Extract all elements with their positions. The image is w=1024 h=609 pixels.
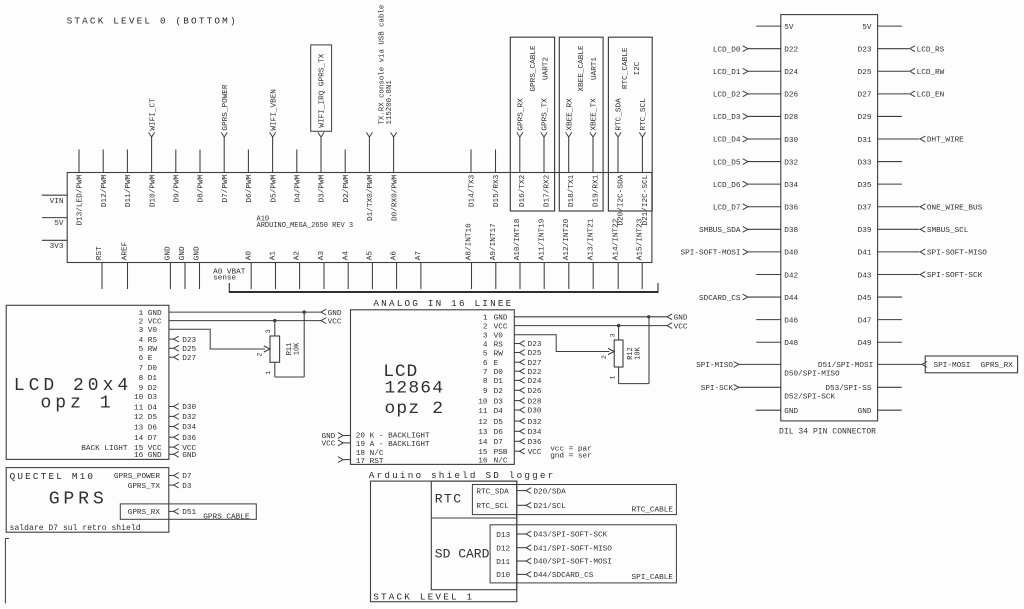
svg-text:D46: D46 xyxy=(784,317,798,325)
svg-text:3V3: 3V3 xyxy=(50,243,64,251)
svg-text:XBEE_CABLE: XBEE_CABLE xyxy=(578,45,586,92)
cable box GPRS_CABLE with pin GPRS_RX to D51 xyxy=(120,504,256,522)
svg-text:8: 8 xyxy=(139,375,144,383)
svg-text:D3/PWM: D3/PWM xyxy=(319,174,327,202)
DIL pin D38 (left) xyxy=(699,226,799,235)
svg-text:RTC_SDA: RTC_SDA xyxy=(476,488,509,496)
LCD20x4 pin 15 VCC xyxy=(134,444,197,453)
title STACK LEVEL 1 xyxy=(373,591,474,602)
svg-text:D52/SPI-SCK: D52/SPI-SCK xyxy=(784,393,835,401)
svg-text:D6/PWM: D6/PWM xyxy=(246,174,254,202)
pin A3 (bottom) xyxy=(318,251,326,289)
note TX RX console via USB cable xyxy=(378,5,394,125)
svg-text:D34: D34 xyxy=(784,182,798,190)
svg-text:D50/SPI-MISO: D50/SPI-MISO xyxy=(784,370,840,378)
svg-text:E: E xyxy=(494,360,499,368)
svg-text:LCD_D1: LCD_D1 xyxy=(713,69,741,77)
svg-text:15: 15 xyxy=(478,449,488,457)
DIL pin D50/SPI-MISO with net SPI-MISO xyxy=(696,362,840,379)
DIL pin D35 (right) xyxy=(858,182,902,190)
svg-text:D20/I2C-SDA: D20/I2C-SDA xyxy=(617,174,625,225)
svg-text:SPI-MISO: SPI-MISO xyxy=(696,362,733,370)
DIL pin D47 (right) xyxy=(858,317,902,325)
svg-text:WIFI_VBEN: WIFI_VBEN xyxy=(270,89,278,131)
DIL pin 5V (left) xyxy=(756,24,794,32)
svg-text:D18/TX1: D18/TX1 xyxy=(568,174,576,207)
pin GND (bottom) xyxy=(165,246,173,289)
svg-text:D15/RX3: D15/RX3 xyxy=(493,174,501,207)
LCD12864 pin 3 V0 xyxy=(483,333,503,341)
svg-text:D20/SDA: D20/SDA xyxy=(533,488,566,496)
svg-text:D45: D45 xyxy=(858,295,872,303)
label 12864 xyxy=(385,378,445,398)
pin D21/I2C-SCL xyxy=(639,98,650,226)
DIL pin D26 (left) xyxy=(713,91,799,100)
svg-text:A6: A6 xyxy=(391,251,399,261)
svg-text:D3: D3 xyxy=(148,394,158,402)
svg-text:7: 7 xyxy=(139,365,144,373)
svg-text:4: 4 xyxy=(139,337,144,345)
svg-text:UART1: UART1 xyxy=(591,57,599,80)
svg-text:AREF: AREF xyxy=(122,241,130,260)
svg-text:opz 2: opz 2 xyxy=(385,399,445,419)
svg-text:GND: GND xyxy=(165,246,173,260)
cable group box GPRS_CABLE UART2 xyxy=(510,37,554,211)
svg-text:RS: RS xyxy=(148,337,158,345)
svg-text:D32: D32 xyxy=(182,414,196,422)
wire V0 to R12 wiper xyxy=(514,335,614,355)
svg-text:STACK LEVEL 1: STACK LEVEL 1 xyxy=(373,591,474,602)
svg-text:A14/INT22: A14/INT22 xyxy=(612,218,620,260)
module box RTC / SD CARD xyxy=(431,481,517,590)
svg-text:D51: D51 xyxy=(182,509,196,517)
svg-text:1: 1 xyxy=(139,310,144,318)
DIL pins GND xyxy=(756,408,902,416)
svg-text:10: 10 xyxy=(134,394,144,402)
LCD12864 pin 13 D6 xyxy=(478,428,542,437)
svg-text:D41: D41 xyxy=(858,250,872,258)
pin A1 (bottom) xyxy=(270,251,278,289)
svg-text:D33: D33 xyxy=(858,159,872,167)
svg-text:RTC: RTC xyxy=(435,492,463,507)
svg-text:A1: A1 xyxy=(270,251,278,261)
svg-text:D31: D31 xyxy=(858,137,872,145)
analog bus bracket xyxy=(229,283,659,292)
pin D7/PWM xyxy=(221,84,230,202)
svg-text:D22: D22 xyxy=(784,46,798,54)
svg-text:A11/INT19: A11/INT19 xyxy=(538,218,546,260)
svg-text:D16/TX2: D16/TX2 xyxy=(519,174,527,207)
LCD20x4 pin 7 D0 xyxy=(139,365,158,373)
svg-text:A7: A7 xyxy=(415,251,423,261)
GPRS pin GPRS_TX to D3 xyxy=(128,482,192,491)
svg-text:LCD_D7: LCD_D7 xyxy=(713,204,741,212)
svg-text:V0: V0 xyxy=(148,327,158,335)
DIL pin D46 (left) xyxy=(756,317,798,325)
svg-text:D40/SPI-SOFT-MOSI: D40/SPI-SOFT-MOSI xyxy=(533,559,611,567)
svg-text:1: 1 xyxy=(265,371,272,375)
pin GND (bottom) xyxy=(179,246,187,289)
svg-text:RS: RS xyxy=(494,341,504,349)
svg-text:11: 11 xyxy=(134,404,144,412)
module LCD 12864 opz 2 body xyxy=(351,310,515,465)
svg-text:GPRS_RX: GPRS_RX xyxy=(518,98,526,131)
svg-text:GND: GND xyxy=(194,246,202,260)
svg-text:20 K - BACKLIGHT: 20 K - BACKLIGHT xyxy=(356,432,430,440)
svg-text:7: 7 xyxy=(483,369,488,377)
svg-text:N/C: N/C xyxy=(494,458,508,466)
svg-text:LCD_EN: LCD_EN xyxy=(917,92,945,100)
svg-text:3: 3 xyxy=(139,327,144,335)
DIL pin D48 (left) xyxy=(756,340,798,348)
svg-text:GPRS_RX: GPRS_RX xyxy=(128,509,161,517)
LCD20x4 pin 3 V0 xyxy=(139,327,158,335)
net GND wire (LCD12864 pin1) xyxy=(514,314,688,323)
net box SPI-MOSI GPRS_RX xyxy=(925,356,1017,373)
LCD12864 pin 17 RST xyxy=(338,457,384,466)
svg-text:WIFI_IRQ GPRS_TX: WIFI_IRQ GPRS_TX xyxy=(319,53,327,127)
label LCD 20x4 xyxy=(14,376,132,396)
svg-text:115200.8N1: 115200.8N1 xyxy=(386,80,394,125)
svg-text:16: 16 xyxy=(134,452,144,460)
DIL pin D45 (right) xyxy=(858,295,902,303)
svg-text:D44: D44 xyxy=(784,295,798,303)
svg-text:D29: D29 xyxy=(858,114,872,122)
svg-text:10K: 10K xyxy=(293,342,301,355)
svg-text:SMBUS_SDA: SMBUS_SDA xyxy=(699,227,741,235)
pin D4/PWM xyxy=(295,150,303,203)
LCD12864 pin 9 D2 xyxy=(483,387,542,396)
svg-text:ARDUINO_MEGA_2650 REV 3: ARDUINO_MEGA_2650 REV 3 xyxy=(257,222,354,230)
pin A12/INT20 (bottom) xyxy=(563,218,571,289)
title ANALOG IN 16 LINEE xyxy=(373,298,513,309)
svg-text:D1: D1 xyxy=(148,375,158,383)
svg-text:RTC_CABLE: RTC_CABLE xyxy=(622,47,630,89)
pin A15/INT23 (bottom) xyxy=(636,218,644,289)
DIL pin D43 (right) xyxy=(858,272,983,281)
svg-text:A5: A5 xyxy=(367,251,375,261)
svg-text:5: 5 xyxy=(139,346,144,354)
LCD20x4 pin 6 E xyxy=(139,354,197,363)
DIL pin D36 (left) xyxy=(713,204,799,213)
svg-text:D5/PWM: D5/PWM xyxy=(270,174,278,202)
LCD20x4 pin 2 VCC xyxy=(139,318,162,326)
svg-text:2: 2 xyxy=(483,323,488,331)
label BACK LIGHT xyxy=(81,445,128,453)
svg-text:D2/PWM: D2/PWM xyxy=(343,174,351,202)
svg-text:D3: D3 xyxy=(182,483,192,491)
svg-text:5V: 5V xyxy=(54,220,64,228)
net GND wire (LCD20x4 pin1) xyxy=(169,309,342,318)
LCD12864 pin 2 VCC xyxy=(483,323,508,331)
svg-text:D4: D4 xyxy=(494,408,504,416)
svg-text:D1: D1 xyxy=(494,378,504,386)
pin A9/INT17 (bottom) xyxy=(490,223,498,289)
pin D6/PWM xyxy=(246,150,254,203)
DIL pin D22 (left) xyxy=(713,46,799,55)
svg-text:GPRS_CABLE: GPRS_CABLE xyxy=(203,514,250,522)
RTC pin RTC_SCL to D21/SCL xyxy=(476,502,566,511)
svg-text:3: 3 xyxy=(483,333,488,341)
svg-text:3: 3 xyxy=(265,329,272,333)
note A0 VBAT sense xyxy=(213,268,246,282)
svg-text:17 RST: 17 RST xyxy=(356,458,384,466)
pin A4 (bottom) xyxy=(342,251,350,289)
DIL pin D51/SPI-MOSI wire to GPRS_RX xyxy=(818,362,927,371)
SD pin D11 to D40/SPI-SOFT-MOSI xyxy=(496,558,612,567)
LCD20x4 pin 16 GND xyxy=(134,451,197,460)
svg-text:RW: RW xyxy=(494,350,504,358)
svg-text:D36: D36 xyxy=(784,205,798,213)
svg-text:VCC: VCC xyxy=(148,318,162,326)
svg-text:A8/INT16: A8/INT16 xyxy=(466,223,474,260)
svg-text:LCD_D4: LCD_D4 xyxy=(713,137,741,145)
svg-text:A12/INT20: A12/INT20 xyxy=(563,218,571,260)
LCD12864 pin 1 GND xyxy=(483,315,508,323)
svg-text:D11: D11 xyxy=(496,559,510,567)
pin A6 (bottom) xyxy=(391,251,399,289)
svg-text:D4/PWM: D4/PWM xyxy=(295,174,303,202)
svg-text:D12/PWM: D12/PWM xyxy=(101,174,109,207)
svg-text:D6: D6 xyxy=(148,424,158,432)
svg-text:gnd = ser: gnd = ser xyxy=(550,452,592,460)
svg-text:GPRS: GPRS xyxy=(49,490,108,510)
svg-text:RST: RST xyxy=(96,246,104,260)
svg-text:D40: D40 xyxy=(784,250,798,258)
label SD CARD xyxy=(435,546,490,561)
svg-text:D30: D30 xyxy=(182,404,196,412)
svg-text:D28: D28 xyxy=(528,398,542,406)
svg-text:VCC: VCC xyxy=(494,323,508,331)
label RTC xyxy=(435,492,463,507)
DIL pin D32 (left) xyxy=(713,159,799,168)
DIL pin D40 (left) xyxy=(681,249,799,258)
svg-text:VCC: VCC xyxy=(528,449,542,457)
svg-text:D22: D22 xyxy=(528,369,542,377)
svg-text:D24: D24 xyxy=(528,378,542,386)
svg-text:D25: D25 xyxy=(528,350,542,358)
svg-text:5V: 5V xyxy=(862,24,872,32)
DIL pin D53/SPI-SS xyxy=(825,385,901,393)
svg-text:LCD_D5: LCD_D5 xyxy=(713,159,741,167)
svg-text:RTC_SCL: RTC_SCL xyxy=(476,503,509,511)
svg-text:D17/RX2: D17/RX2 xyxy=(543,174,551,207)
svg-text:D0: D0 xyxy=(494,369,504,377)
svg-text:SPI_CABLE: SPI_CABLE xyxy=(631,574,673,582)
pin RST (bottom) xyxy=(96,246,104,289)
svg-text:A10/INT18: A10/INT18 xyxy=(514,218,522,260)
svg-text:12: 12 xyxy=(134,414,144,422)
svg-text:D12: D12 xyxy=(496,546,510,554)
svg-text:16: 16 xyxy=(478,458,488,466)
RTC pin RTC_SDA to D20/SDA xyxy=(476,488,566,497)
wire V0 to R11 wiper xyxy=(169,329,270,352)
label GPRS xyxy=(49,490,108,510)
LCD20x4 pin 10 D3 xyxy=(134,394,157,402)
svg-text:PSB: PSB xyxy=(494,449,508,457)
DIL pin D37 (right) xyxy=(858,204,983,213)
svg-text:GND: GND xyxy=(858,408,872,416)
svg-text:LCD_D2: LCD_D2 xyxy=(713,92,741,100)
pin D12/PWM xyxy=(101,150,109,208)
pin D11/PWM xyxy=(125,150,133,208)
svg-text:SPI-MOSI: SPI-MOSI xyxy=(934,362,971,370)
svg-text:A2: A2 xyxy=(294,251,302,261)
svg-text:VCC: VCC xyxy=(674,323,688,331)
svg-text:D4: D4 xyxy=(148,404,158,412)
pin D13/LED/PWM xyxy=(77,150,85,226)
svg-text:D34: D34 xyxy=(528,429,542,437)
label A10 ARDUINO_MEGA_2650 REV 3 xyxy=(257,216,354,231)
DIL pin D49 (right) xyxy=(858,340,902,348)
svg-text:3: 3 xyxy=(609,333,616,337)
DIL pin D39 (right) xyxy=(858,226,969,235)
svg-text:XBEE_TX: XBEE_TX xyxy=(591,98,599,131)
LCD20x4 pin 5 RW xyxy=(139,345,197,354)
svg-text:2: 2 xyxy=(139,318,144,326)
pin D5/PWM xyxy=(270,89,279,202)
svg-text:8: 8 xyxy=(483,378,488,386)
svg-text:DHT_WIRE: DHT_WIRE xyxy=(927,137,964,145)
svg-text:D49: D49 xyxy=(858,340,872,348)
LCD12864 pin 7 D0 xyxy=(483,368,542,377)
svg-text:5: 5 xyxy=(483,350,488,358)
note vcc=par gnd=ser xyxy=(550,445,592,460)
LCD12864 pin 19 A-BACKLIGHT net VCC xyxy=(322,440,430,449)
svg-text:D53/SPI-SS: D53/SPI-SS xyxy=(825,385,872,393)
LCD20x4 pin 4 RS xyxy=(139,336,197,345)
svg-text:GND: GND xyxy=(328,310,342,318)
svg-text:D0/RX0/PWM: D0/RX0/PWM xyxy=(391,174,399,221)
svg-text:WIFI_CT: WIFI_CT xyxy=(149,98,157,131)
svg-text:opz 1: opz 1 xyxy=(41,393,115,413)
title STACK LEVEL 0 xyxy=(67,15,238,26)
svg-text:D3: D3 xyxy=(494,398,504,406)
svg-text:14: 14 xyxy=(134,435,144,443)
trimmer R11 10K xyxy=(257,312,305,377)
connector DIL 34 body xyxy=(781,15,878,421)
svg-text:GPRS_TX: GPRS_TX xyxy=(128,483,161,491)
svg-text:RTC_CABLE: RTC_CABLE xyxy=(631,506,673,514)
LCD12864 pin 8 D1 xyxy=(483,378,542,387)
svg-text:11: 11 xyxy=(478,408,488,416)
svg-text:DIL 34 PIN CONNECTOR: DIL 34 PIN CONNECTOR xyxy=(779,428,876,437)
pin D14/TX3 xyxy=(469,150,477,208)
DIL pin 5V (right) xyxy=(862,24,902,32)
svg-text:LCD_D0: LCD_D0 xyxy=(713,46,741,54)
svg-text:GPRS_CABLE: GPRS_CABLE xyxy=(530,45,538,92)
svg-text:D30: D30 xyxy=(528,408,542,416)
svg-text:A15/INT23: A15/INT23 xyxy=(636,218,644,260)
svg-text:D47: D47 xyxy=(858,317,872,325)
svg-text:D32: D32 xyxy=(528,419,542,427)
svg-text:A9/INT17: A9/INT17 xyxy=(490,223,498,260)
svg-text:UART2: UART2 xyxy=(543,57,551,80)
svg-text:sense: sense xyxy=(213,275,236,283)
svg-text:D23: D23 xyxy=(528,341,542,349)
svg-text:13: 13 xyxy=(134,424,144,432)
svg-text:LCD_D6: LCD_D6 xyxy=(713,182,741,190)
svg-text:RTC_SDA: RTC_SDA xyxy=(616,98,624,131)
title Arduino shield SD logger xyxy=(369,470,556,481)
svg-text:D34: D34 xyxy=(182,424,196,432)
pin D17/RX2 xyxy=(541,98,552,207)
svg-text:10K: 10K xyxy=(634,346,642,359)
svg-text:GPRS_POWER: GPRS_POWER xyxy=(114,473,161,481)
pin D8/PWM xyxy=(198,150,206,203)
svg-text:D2: D2 xyxy=(494,388,504,396)
svg-text:19 A - BACKLIGHT: 19 A - BACKLIGHT xyxy=(356,441,430,449)
svg-text:GND: GND xyxy=(494,315,508,323)
svg-text:SPI-SCK: SPI-SCK xyxy=(701,385,734,393)
svg-text:D5: D5 xyxy=(494,419,504,427)
DIL pin D30 (left) xyxy=(713,136,799,145)
svg-text:D25: D25 xyxy=(858,69,872,77)
svg-text:D0: D0 xyxy=(148,365,158,373)
svg-text:D48: D48 xyxy=(784,340,798,348)
pin A11/INT19 (bottom) xyxy=(538,218,546,289)
LCD20x4 pin 1 GND xyxy=(139,310,162,318)
svg-text:LCD_D3: LCD_D3 xyxy=(713,114,741,122)
LCD12864 pin 14 D7 xyxy=(478,438,542,447)
cable group box XBEE_CABLE UART1 xyxy=(559,37,603,211)
svg-text:SMBUS_SCL: SMBUS_SCL xyxy=(927,227,969,235)
svg-text:saldare D7 sul retro shield: saldare D7 sul retro shield xyxy=(10,524,141,533)
svg-text:LCD_RW: LCD_RW xyxy=(917,69,945,77)
svg-text:D43/SPI-SOFT-SCK: D43/SPI-SOFT-SCK xyxy=(533,532,607,540)
svg-text:D44/SDCARD_CS: D44/SDCARD_CS xyxy=(533,572,593,580)
pin D20/I2C-SDA xyxy=(615,98,626,226)
svg-text:D27: D27 xyxy=(528,360,542,368)
pin D3/PWM xyxy=(318,132,327,202)
svg-text:D26: D26 xyxy=(528,388,542,396)
power stub 5V xyxy=(42,218,67,229)
svg-text:D7: D7 xyxy=(182,473,192,481)
LCD20x4 pin 9 D2 xyxy=(139,385,158,393)
LCD12864 pin 5 RW xyxy=(483,350,542,359)
pin D0/RX0/PWM xyxy=(391,132,400,221)
pin A14/INT22 (bottom) xyxy=(612,218,620,289)
svg-text:D36: D36 xyxy=(528,439,542,447)
svg-text:5V: 5V xyxy=(784,24,794,32)
label opz 1 xyxy=(41,393,115,413)
svg-text:D7: D7 xyxy=(148,435,158,443)
LCD20x4 pin 8 D1 xyxy=(139,375,158,383)
svg-text:1: 1 xyxy=(483,315,488,323)
pin D15/RX3 xyxy=(493,150,501,208)
DIL pin D31 (right) xyxy=(858,136,965,145)
svg-text:D6: D6 xyxy=(494,429,504,437)
LCD20x4 pin 12 D5 xyxy=(134,414,197,423)
svg-text:D30: D30 xyxy=(784,137,798,145)
svg-text:D32: D32 xyxy=(784,159,798,167)
svg-text:D24: D24 xyxy=(784,69,798,77)
svg-text:D26: D26 xyxy=(784,92,798,100)
svg-text:D35: D35 xyxy=(858,182,872,190)
svg-text:XBEE_RX: XBEE_RX xyxy=(566,98,574,131)
svg-text:D9/PWM: D9/PWM xyxy=(174,174,182,202)
svg-text:D43: D43 xyxy=(858,272,872,280)
svg-text:SPI-SOFT-MISO: SPI-SOFT-MISO xyxy=(927,250,987,258)
LCD12864 pin 15 PSB xyxy=(478,448,542,457)
svg-text:SDCARD_CS: SDCARD_CS xyxy=(699,295,741,303)
svg-text:18 N/C: 18 N/C xyxy=(356,450,384,458)
GPRS pin GPRS_POWER to D7 xyxy=(114,473,192,482)
pin D19/RX1 xyxy=(590,98,601,207)
SD pin D10 to D44/SDCARD_CS xyxy=(496,572,593,581)
LCD12864 pin 11 D4 xyxy=(478,407,542,416)
LCD20x4 pin 11 D4 xyxy=(134,404,197,413)
